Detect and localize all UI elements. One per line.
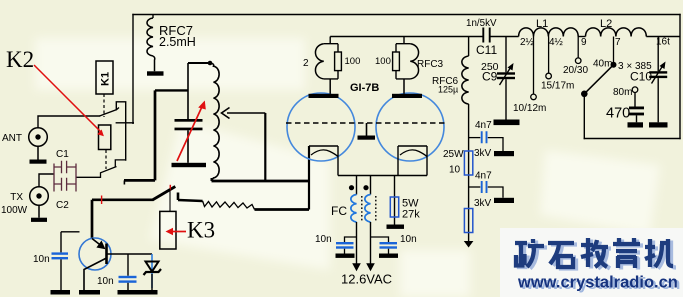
svg-text:16t: 16t	[656, 37, 670, 48]
inductor RFC6	[468, 37, 470, 57]
relay contact K2 upper arm	[100, 108, 120, 117]
relay coil K3 box	[160, 211, 176, 249]
char shi	[548, 243, 574, 267]
svg-text:2: 2	[303, 58, 309, 69]
wire: tap arrow	[227, 112, 265, 114]
svg-text:125µ: 125µ	[438, 85, 458, 95]
svg-text:2.5mH: 2.5mH	[159, 35, 196, 49]
svg-text:C1: C1	[56, 149, 69, 160]
char ji	[645, 239, 673, 267]
switch arm 40m	[584, 65, 613, 94]
grid dashed line	[286, 122, 447, 124]
cathode bus wire	[338, 175, 427, 177]
svg-text:25W: 25W	[443, 149, 464, 160]
wire: zigzag spring lead	[203, 201, 255, 210]
svg-text:C11: C11	[476, 43, 497, 57]
svg-text:L1: L1	[536, 18, 548, 30]
capacitor 10n (FC right)	[371, 237, 389, 242]
svg-text:470: 470	[606, 106, 630, 122]
relay K1 box	[96, 61, 113, 94]
svg-text:27k: 27k	[402, 209, 420, 221]
svg-text:2½: 2½	[520, 37, 535, 48]
svg-text:C9: C9	[482, 70, 498, 84]
filament choke FC	[357, 176, 371, 195]
svg-text:100: 100	[375, 56, 391, 67]
svg-text:20/30: 20/30	[563, 65, 588, 76]
wire: bottom rail of band-switch	[584, 138, 680, 140]
transistor Q1	[91, 200, 94, 239]
svg-text:www.crystalradio.cn: www.crystalradio.cn	[517, 274, 678, 292]
capacitor 470	[634, 93, 636, 107]
svg-text:TX: TX	[10, 192, 23, 203]
inductor RFC7	[152, 15, 154, 19]
watermark panel	[500, 228, 683, 297]
svg-text:K2: K2	[6, 47, 34, 72]
ground grid	[366, 123, 368, 136]
capacitor C9 variable	[505, 37, 507, 73]
wire L2 to corner	[646, 36, 680, 38]
cathode V1	[309, 145, 338, 147]
inductor L2	[586, 28, 647, 37]
svg-text:4½: 4½	[549, 37, 564, 48]
logo 矿石收音机 (drawn strokes)	[518, 240, 676, 270]
cathode V2	[398, 145, 427, 147]
wire: TX thick line to K3	[92, 198, 153, 201]
svg-text:3kV: 3kV	[474, 148, 492, 159]
svg-text:10n: 10n	[33, 254, 50, 265]
tap 7t / 40m contact	[613, 37, 615, 63]
capacitor 4n7 (upper)	[469, 137, 481, 139]
svg-text:L2: L2	[600, 18, 612, 30]
wire: ANT lead	[38, 116, 100, 128]
tap 4.5t	[548, 37, 550, 74]
relay coil K2 box	[99, 125, 111, 150]
connector TX	[30, 187, 49, 206]
svg-text:K3: K3	[187, 218, 215, 243]
svg-text:1n/5kV: 1n/5kV	[466, 18, 497, 29]
wire: base lead	[107, 253, 152, 255]
wire between L1 L2	[578, 36, 585, 38]
inductor L1	[519, 28, 579, 37]
wire: to 10n	[61, 231, 80, 233]
svg-text:10n: 10n	[97, 276, 114, 287]
capacitor 4n7 (lower)	[469, 186, 481, 188]
svg-text:3kV: 3kV	[474, 198, 492, 209]
tube V1 GI-7B	[287, 93, 355, 161]
char shou	[581, 238, 608, 267]
wire: top RX bypass bus	[133, 14, 680, 16]
inductor input coil	[208, 61, 213, 66]
anode V2	[403, 79, 405, 94]
char kuang	[515, 239, 544, 267]
svg-text:10/12m: 10/12m	[513, 103, 546, 114]
tap 2.5t	[533, 37, 535, 95]
parasitic choke / resistor 100 (V1)	[329, 37, 331, 44]
tube V2 GI-7B	[376, 93, 444, 161]
anode bus wire	[330, 36, 483, 38]
tap 9t	[577, 37, 579, 59]
wire: right edge vertical	[679, 15, 681, 139]
svg-text:FC: FC	[331, 204, 347, 218]
capacitor C11	[483, 28, 489, 43]
svg-text:15/17m: 15/17m	[541, 81, 574, 92]
node red tick	[101, 196, 103, 205]
svg-text:RFC3: RFC3	[417, 59, 444, 70]
capacitor 10n (left)	[60, 232, 62, 253]
svg-text:GI-7B: GI-7B	[350, 82, 379, 94]
wire: tank top to K3 vertical	[155, 89, 188, 91]
wire: tap riser	[264, 113, 266, 181]
contact 80m	[632, 87, 638, 93]
wire: coil bottom to cathode	[212, 180, 310, 183]
HV feed line	[468, 104, 470, 241]
anode V1	[329, 79, 331, 94]
wire: thick to cathode node	[255, 208, 310, 211]
svg-text:100: 100	[345, 56, 361, 67]
svg-text:4n7: 4n7	[475, 171, 492, 182]
svg-text:4n7: 4n7	[475, 120, 492, 131]
svg-text:9: 9	[581, 37, 587, 48]
svg-text:C10: C10	[630, 70, 652, 84]
red adjust arrow	[177, 105, 203, 162]
svg-text:10n: 10n	[315, 234, 332, 245]
wire: left vertical from top bus	[132, 15, 134, 124]
svg-text:10: 10	[449, 165, 461, 176]
wire: pivot stem	[583, 94, 585, 139]
diode D1 (zener)	[151, 254, 153, 288]
capacitor 10n (FC left)	[345, 237, 357, 242]
capacitor input variable	[187, 63, 189, 119]
svg-text:K1: K1	[100, 72, 112, 86]
dashed link K1	[103, 94, 105, 117]
wire: K2 RX contact loop	[116, 102, 125, 160]
svg-text:C2: C2	[56, 200, 69, 211]
dashed link K2 lower	[105, 150, 107, 169]
svg-text:100W: 100W	[1, 205, 28, 216]
resistor 25W 10	[464, 151, 472, 175]
char yin	[613, 238, 640, 268]
svg-text:ANT: ANT	[2, 133, 22, 144]
svg-text:80m: 80m	[613, 87, 632, 98]
connector ANT	[29, 128, 48, 147]
switch K3 cluster	[154, 90, 157, 180]
resistor 5W 27k	[394, 176, 396, 225]
svg-text:10n: 10n	[400, 234, 417, 245]
capacitor 10n (base)	[127, 254, 129, 276]
resistor lower	[464, 209, 472, 233]
parasitic choke RFC3 / resistor 100 (V2)	[403, 37, 405, 44]
svg-text:12.6VAC: 12.6VAC	[341, 272, 392, 287]
svg-text:7: 7	[615, 37, 621, 48]
relay contact K2 lower arm	[76, 167, 117, 178]
capacitor C10 variable	[657, 37, 659, 72]
MAIN SCHEMATIC	[38, 15, 680, 161]
capacitor C1 / C2 block	[54, 161, 76, 192]
